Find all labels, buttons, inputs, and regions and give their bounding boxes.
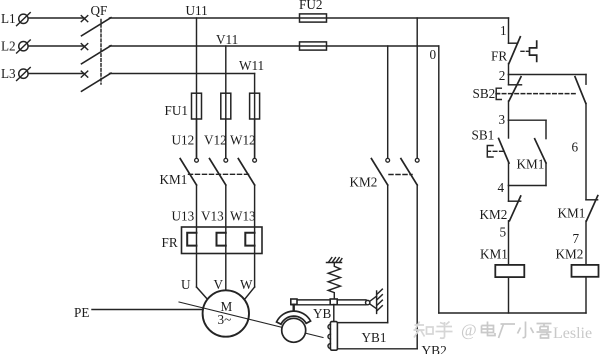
SB1 linkage dashed — [493, 150, 503, 152]
watermark glyph chang — [499, 324, 516, 338]
KM2 linkage dashed — [389, 174, 412, 176]
watermark — [414, 322, 453, 339]
KM1 holding branch bottom — [545, 163, 547, 186]
brake band — [277, 311, 311, 324]
solenoid YB body — [330, 322, 337, 351]
watermark glyph ge — [537, 324, 552, 339]
breaker QF linkage dashed — [100, 20, 102, 85]
wire L1 to QF — [29, 17, 84, 19]
svg-text:6: 6 — [572, 140, 579, 155]
breaker QF pole 2 — [81, 44, 111, 64]
pivot wall hatch — [377, 289, 383, 311]
svg-text:U13: U13 — [172, 209, 195, 224]
wire coil KM1 to bottom — [508, 278, 510, 313]
svg-text:FU1: FU1 — [165, 103, 188, 118]
brake anchor hatch — [327, 258, 342, 263]
wire L3 to QF — [29, 73, 84, 75]
node 4 horizontal — [509, 185, 547, 187]
fuse FU2 lower — [300, 42, 327, 50]
wire W to motor — [245, 287, 255, 299]
SB1 button actuator — [487, 146, 493, 158]
svg-text:KM1: KM1 — [480, 247, 508, 262]
wire node5 to coil KM1 — [508, 221, 510, 265]
watermark glyph hu — [436, 322, 453, 339]
wire L3 bus to W11 — [110, 73, 255, 75]
wire node1 to node2 — [508, 64, 510, 75]
svg-text:FR: FR — [491, 49, 507, 64]
lever middle block — [330, 299, 337, 305]
svg-text:QF: QF — [91, 3, 108, 18]
right branch drop from node2 — [585, 75, 587, 85]
FR trip actuator dashed — [521, 50, 529, 52]
svg-text:3~: 3~ — [218, 312, 232, 327]
wire L2 bus to node 0 corner — [110, 45, 439, 47]
brake shoe link stub — [293, 305, 295, 311]
svg-text:W11: W11 — [239, 58, 264, 73]
svg-text:2: 2 — [499, 68, 506, 83]
svg-text:3: 3 — [499, 112, 506, 127]
svg-text:KM2: KM2 — [350, 175, 378, 190]
contactor KM1 main pole U — [180, 158, 198, 185]
watermark at Leslie — [461, 321, 592, 343]
solenoid plunger rod — [333, 305, 335, 322]
wire V11 drop — [225, 46, 227, 158]
contactor KM2 pole B contact — [401, 158, 419, 185]
svg-text:PE: PE — [74, 305, 89, 320]
svg-text:SB1: SB1 — [472, 128, 495, 143]
svg-text:FR: FR — [162, 235, 178, 250]
svg-text:0: 0 — [430, 47, 437, 62]
watermark glyph dian — [482, 322, 496, 336]
FR heater element V — [217, 233, 226, 246]
wire L1 bus to control corner — [110, 17, 509, 19]
wire PE — [92, 309, 203, 311]
svg-text:FU2: FU2 — [299, 0, 322, 12]
svg-text:YB1: YB1 — [362, 330, 387, 345]
wire W13 — [254, 185, 256, 287]
breaker QF pole 1 — [81, 16, 111, 36]
svg-text:U12: U12 — [172, 133, 195, 148]
svg-text:@: @ — [461, 321, 477, 340]
SB2 button actuator — [496, 88, 501, 99]
contactor KM2 pole A drop from L2 — [387, 46, 389, 158]
watermark glyph zhi — [414, 322, 434, 338]
wire KM2 pole A down — [387, 185, 389, 323]
contactor KM1 main pole V — [210, 158, 228, 185]
svg-text:KM1: KM1 — [558, 206, 586, 221]
KM1 holding branch top — [545, 120, 547, 138]
solenoid coil bumps — [328, 324, 330, 348]
node 2 horizontal — [509, 74, 587, 76]
svg-text:L3: L3 — [1, 66, 16, 81]
node 3 horizontal — [509, 119, 547, 121]
wire YB1 horizontal — [337, 322, 387, 324]
terminal L3 — [17, 68, 31, 81]
SB2 linkage dashed — [496, 93, 578, 95]
FR heater element U — [187, 233, 196, 246]
wire U to motor — [197, 287, 208, 299]
motor shaft line — [179, 302, 323, 338]
brake lever bar — [291, 300, 366, 305]
KM1 NO holding contact — [535, 139, 546, 163]
motor M — [203, 290, 249, 336]
wire W11 drop — [254, 74, 256, 158]
svg-text:W: W — [240, 277, 253, 292]
coil KM2 — [572, 265, 599, 277]
wire V13 — [225, 185, 227, 290]
terminal L1 — [17, 13, 31, 26]
fuse FU1 phase U — [192, 93, 202, 119]
SB2 NC contact right — [575, 77, 586, 104]
fuse FU1 phase W — [250, 93, 260, 119]
svg-text:W12: W12 — [230, 133, 256, 148]
contactor KM1 main pole W — [238, 158, 256, 185]
svg-text:V12: V12 — [204, 133, 227, 148]
svg-text:L1: L1 — [1, 11, 16, 26]
wire V12 — [225, 119, 227, 158]
terminal L2 — [17, 40, 31, 53]
lever left block — [291, 299, 297, 304]
wire SB1 to node4 — [508, 163, 510, 185]
svg-text:KM2: KM2 — [556, 247, 584, 262]
SB1 NO contact — [499, 120, 509, 163]
contactor KM2 pole A contact — [371, 158, 389, 185]
SB2 NC contact main — [509, 75, 522, 102]
node 0 drop wire — [438, 46, 440, 313]
wire coil KM2 to bottom — [585, 278, 587, 313]
watermark glyph xiao — [518, 322, 534, 338]
breaker QF pole 3 — [81, 71, 111, 91]
lever pivot — [366, 291, 377, 313]
fuse FU2 upper — [300, 14, 327, 22]
wire right branch to KM1 NC — [585, 103, 587, 199]
svg-text:YB: YB — [313, 306, 332, 321]
FR NC contact — [509, 37, 521, 64]
wire node7 to coil KM2 — [585, 221, 587, 265]
svg-text:U: U — [181, 277, 191, 292]
brake spring — [328, 263, 340, 300]
control bottom wire — [439, 312, 586, 314]
FR heater element W — [245, 233, 254, 246]
wire U13 — [196, 185, 198, 287]
wire U12 — [196, 119, 198, 158]
wire KM2 pole B down — [416, 185, 418, 349]
svg-text:L2: L2 — [1, 39, 16, 54]
svg-text:7: 7 — [573, 231, 580, 246]
svg-text:V13: V13 — [201, 209, 224, 224]
svg-text:U11: U11 — [186, 3, 208, 18]
svg-text:V: V — [214, 277, 224, 292]
wire SB2 to node3 — [508, 101, 510, 120]
thermal relay FR box — [182, 227, 263, 254]
KM1 main linkage dashed — [189, 173, 252, 175]
svg-text:KM2: KM2 — [480, 207, 508, 222]
svg-text:5: 5 — [500, 225, 507, 240]
svg-text:W13: W13 — [230, 209, 256, 224]
svg-text:V11: V11 — [216, 32, 238, 47]
KM2 NC interlock contact — [509, 186, 521, 221]
coil KM1 — [495, 265, 524, 277]
control corner from L1 — [508, 18, 510, 43]
svg-text:KM1: KM1 — [160, 172, 188, 187]
wire U11 drop — [196, 18, 198, 158]
FR trip symbol — [530, 41, 537, 61]
svg-text:YB2: YB2 — [422, 343, 447, 354]
KM1 NC interlock contact right — [586, 196, 598, 221]
wire L2 to QF — [29, 45, 84, 47]
svg-text:Leslie: Leslie — [553, 325, 592, 342]
svg-text:4: 4 — [498, 180, 505, 195]
svg-text:1: 1 — [500, 23, 507, 38]
wire W12 — [254, 119, 256, 158]
wire YB2 horizontal — [334, 348, 418, 350]
svg-text:KM1: KM1 — [517, 157, 545, 172]
brake drum — [282, 318, 306, 342]
contactor KM2 pole B drop from L1 — [416, 18, 418, 158]
svg-text:SB2: SB2 — [473, 86, 496, 101]
fuse FU1 phase V — [221, 93, 231, 119]
